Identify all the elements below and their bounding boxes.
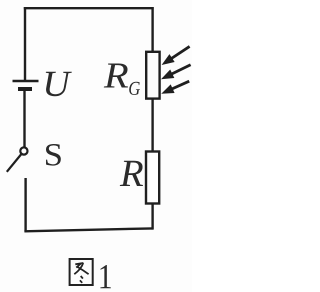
light arrow 1	[167, 46, 189, 61]
label R (resistor)	[120, 161, 143, 186]
battery U short plate	[18, 87, 32, 91]
label S (switch)	[46, 144, 61, 166]
wire right middle	[151, 99, 153, 152]
battery U long plate	[13, 80, 39, 82]
switch S pivot circle	[20, 147, 27, 154]
wire right lower	[151, 204, 153, 230]
caption character tu (figure) hand drawn	[70, 259, 93, 285]
wire top	[24, 7, 154, 9]
label U (battery voltage)	[46, 72, 72, 96]
resistor R body	[146, 152, 159, 204]
wire left lower	[24, 178, 26, 232]
wire bottom	[24, 228, 153, 231]
wire right upper	[151, 7, 153, 52]
label G subscript of RG	[129, 82, 140, 95]
light arrow 2	[167, 65, 191, 76]
light arrow 3	[167, 81, 189, 91]
switch S lever	[7, 154, 22, 172]
wire left middle	[23, 91, 25, 148]
label R of RG (photoresistor)	[104, 64, 128, 88]
wire left upper	[24, 7, 26, 80]
caption digit 1	[100, 265, 110, 288]
photoresistor RG body	[146, 52, 159, 99]
